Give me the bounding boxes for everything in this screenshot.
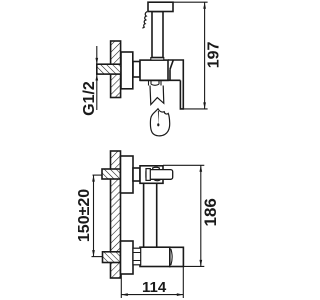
svg-text:186: 186 bbox=[201, 198, 220, 226]
svg-text:150±20: 150±20 bbox=[76, 189, 93, 242]
svg-text:197: 197 bbox=[205, 42, 222, 69]
svg-text:114: 114 bbox=[142, 279, 167, 296]
svg-text:G1/2: G1/2 bbox=[81, 81, 98, 116]
